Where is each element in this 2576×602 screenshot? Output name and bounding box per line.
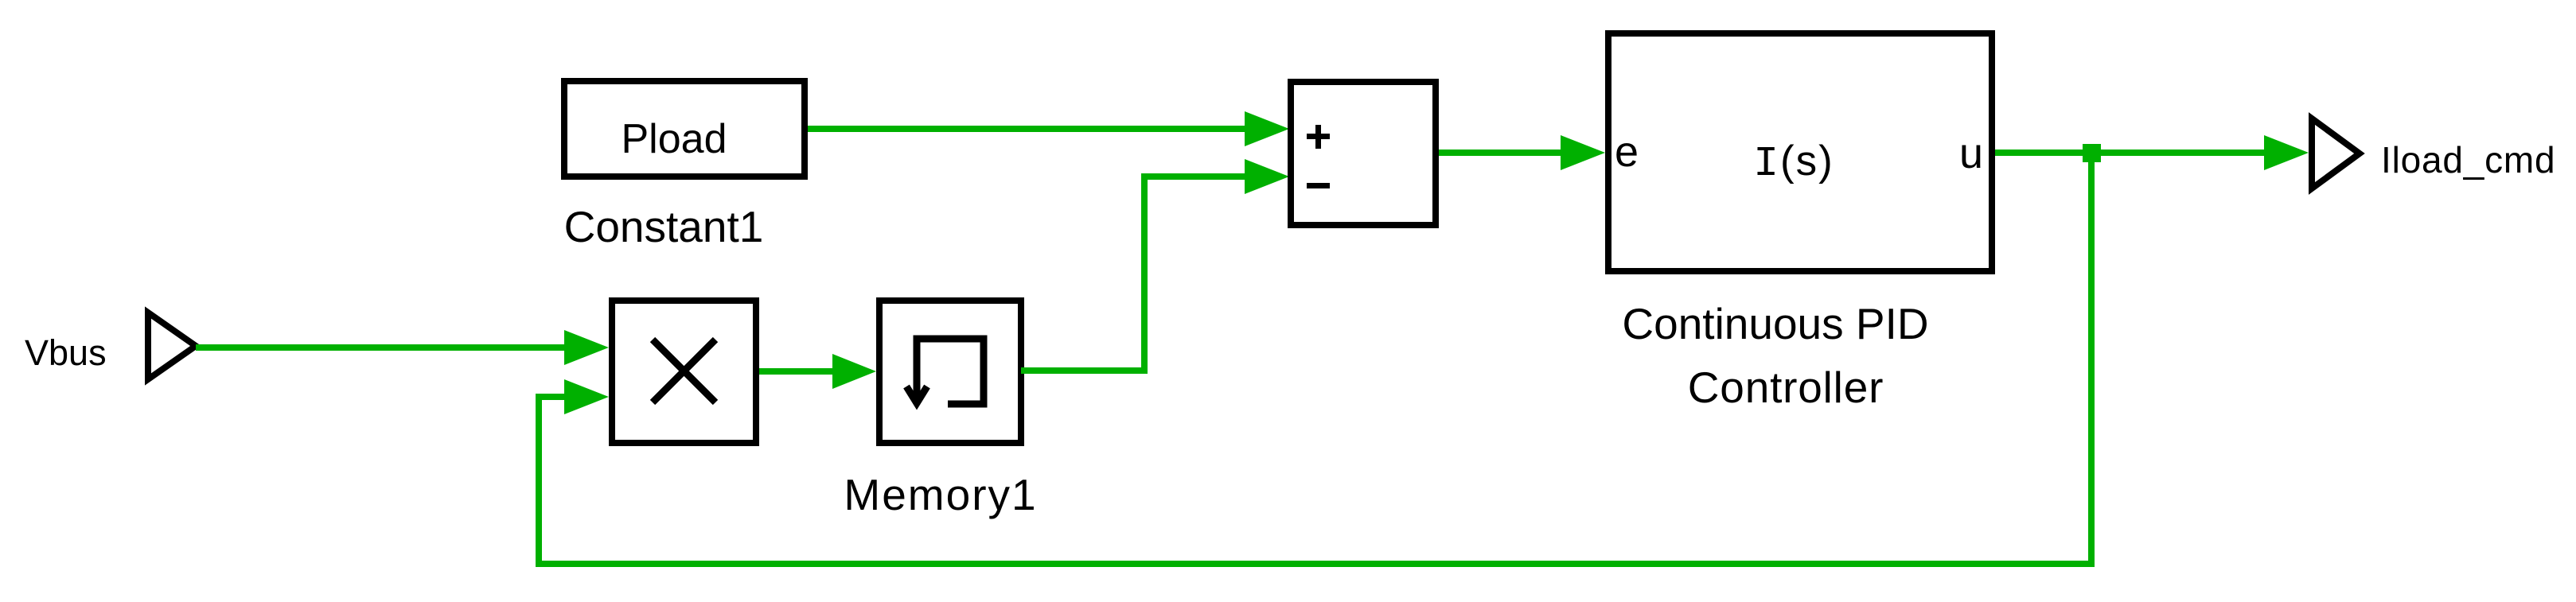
wire Memory to Sum (up and right) <box>1021 177 1249 371</box>
svg-text:Vbus: Vbus <box>25 332 107 373</box>
wire subsystem u to output port <box>1995 150 2269 156</box>
svg-text:Controller: Controller <box>1688 363 1884 412</box>
arrowhead into Memory input <box>832 354 876 389</box>
memory icon loop <box>917 339 984 404</box>
svg-text:Memory1: Memory1 <box>844 470 1037 519</box>
output port Iload_cmd triangle <box>2312 118 2360 188</box>
sum block <box>1291 82 1436 225</box>
arrowhead into Sum - input <box>1245 159 1289 194</box>
svg-text:u: u <box>1959 130 1983 177</box>
svg-text:e: e <box>1615 128 1639 176</box>
junction dot <box>2083 144 2101 162</box>
subsystem block Continuous PID Controller <box>1608 33 1992 271</box>
svg-text:Iload_cmd: Iload_cmd <box>2381 139 2555 181</box>
arrowhead into subsystem e input <box>1561 135 1605 170</box>
minus sign <box>1307 183 1330 188</box>
arrowhead into Sum + input <box>1245 111 1289 146</box>
plus sign <box>1307 134 1330 139</box>
svg-text:I(s): I(s) <box>1753 138 1834 188</box>
wire Sum to subsystem <box>1439 150 1565 156</box>
arrowhead into output port <box>2264 135 2309 170</box>
wire Product to Memory <box>759 368 837 375</box>
memory block <box>879 301 1021 443</box>
constant block Pload <box>564 81 805 177</box>
product block <box>612 301 756 443</box>
svg-text:Continuous PID: Continuous PID <box>1622 299 1928 348</box>
feedback wire down and left to Product input 2 <box>539 153 2091 564</box>
input port Vbus triangle <box>148 313 196 379</box>
svg-text:Pload: Pload <box>622 116 727 162</box>
wire Vbus to Product <box>196 344 569 351</box>
arrowhead into Product input 1 <box>564 330 609 365</box>
wire Pload to Sum <box>808 126 1249 132</box>
svg-text:Constant1: Constant1 <box>564 202 764 251</box>
arrowhead into Product input 2 <box>564 379 609 414</box>
memory icon arrowhead <box>906 386 927 403</box>
product X icon <box>653 340 715 402</box>
